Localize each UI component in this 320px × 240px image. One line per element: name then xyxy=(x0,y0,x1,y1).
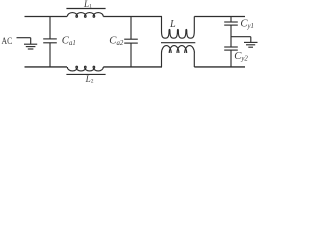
wire (bottom rail, middle segment) xyxy=(103,66,162,68)
common-mode choke L (core) xyxy=(161,42,195,44)
ground (input side) xyxy=(24,38,37,49)
capacitor Cy2 xyxy=(224,47,238,67)
ground (output side) xyxy=(244,37,258,48)
wire (AC lead) xyxy=(17,37,31,39)
common-mode choke L (top winding) xyxy=(162,17,195,39)
capacitor Ca2 xyxy=(124,17,138,68)
inductor L1 xyxy=(66,9,105,18)
wire (top rail, left segment) xyxy=(25,16,68,18)
capacitor Ca1 xyxy=(43,17,57,68)
wire (top rail, middle segment) xyxy=(103,16,162,18)
inductor L2 xyxy=(66,66,105,74)
svg-text:L: L xyxy=(169,19,176,30)
common-mode choke L (bottom winding) xyxy=(162,46,195,67)
wire (bottom rail, left segment) xyxy=(25,66,68,68)
wire (top rail, right segment) xyxy=(194,16,245,18)
wire (bottom rail, right segment) xyxy=(194,66,245,68)
capacitor Cy1 xyxy=(224,17,238,48)
svg-text:AC: AC xyxy=(2,36,13,47)
wire (Y-cap midpoint to ground) xyxy=(231,36,251,38)
